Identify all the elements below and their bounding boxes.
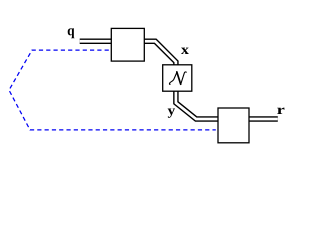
channel box N [163,65,192,91]
blue dashed side-information path [9,50,216,130]
wire r (decoder output) [247,116,278,122]
channel label script N [169,72,186,84]
decoder box [218,108,249,143]
label q [68,28,75,38]
label y [168,109,175,118]
encoder box [111,28,144,61]
wire q (double line into encoder) [80,39,113,45]
label x [181,48,189,54]
wire x (encoder to channel) [142,41,176,67]
label r [277,108,284,114]
wire y (channel to decoder) [176,89,220,119]
